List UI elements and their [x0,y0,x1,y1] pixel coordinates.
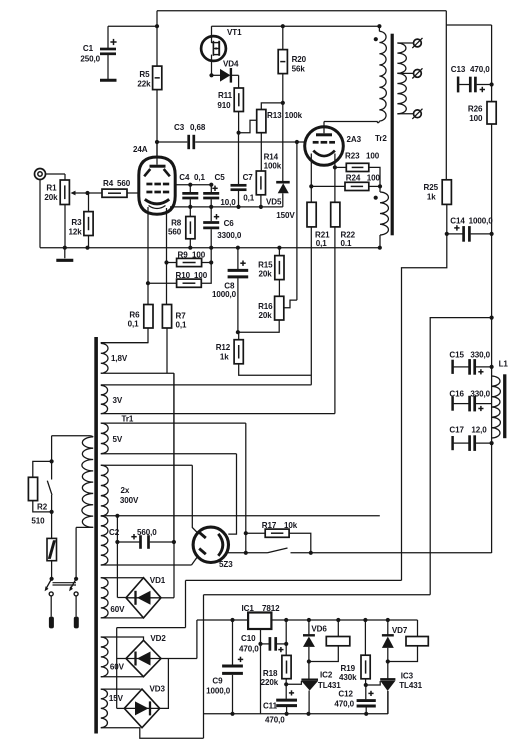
svg-text:0,1: 0,1 [243,194,255,203]
svg-text:C1: C1 [83,44,94,53]
svg-text:C3: C3 [174,123,185,132]
svg-text:100: 100 [366,152,380,161]
svg-text:VD7: VD7 [392,626,408,635]
svg-text:R24: R24 [346,173,361,182]
svg-text:VD3: VD3 [150,685,166,694]
svg-text:R23: R23 [345,152,360,161]
svg-text:R1: R1 [46,184,57,193]
svg-text:7812: 7812 [262,604,280,613]
svg-text:R26: R26 [468,105,483,114]
svg-text:330,0: 330,0 [470,390,490,399]
svg-text:100: 100 [194,271,208,280]
svg-text:12k: 12k [69,227,83,236]
svg-text:470,0: 470,0 [265,716,285,725]
svg-text:1000,0: 1000,0 [212,290,237,299]
svg-text:C17: C17 [449,426,464,435]
svg-text:10,0: 10,0 [220,198,236,207]
svg-text:0,68: 0,68 [190,123,206,132]
svg-text:0,1: 0,1 [128,320,140,329]
svg-text:910: 910 [217,101,231,110]
svg-text:VD4: VD4 [223,60,239,69]
svg-text:C7: C7 [243,173,254,182]
svg-text:R9: R9 [178,251,189,260]
svg-text:C2: C2 [109,528,120,537]
svg-text:R15: R15 [258,260,273,269]
svg-text:R17: R17 [262,521,277,530]
svg-text:470,0: 470,0 [334,700,354,709]
svg-text:C5: C5 [215,173,226,182]
svg-text:R19: R19 [341,664,356,673]
svg-text:VD5: VD5 [266,198,282,207]
svg-text:R7: R7 [176,312,187,321]
svg-text:R14: R14 [264,153,279,162]
svg-text:1k: 1k [427,193,436,202]
svg-text:100k: 100k [285,111,303,120]
svg-text:C14: C14 [450,217,465,226]
svg-text:R8: R8 [171,219,182,228]
svg-text:R18: R18 [263,669,278,678]
svg-text:C16: C16 [449,390,464,399]
svg-text:IC2: IC2 [320,671,333,680]
svg-text:1000,0: 1000,0 [206,687,231,696]
svg-text:300V: 300V [120,496,139,505]
svg-text:C13: C13 [451,65,466,74]
svg-text:10k: 10k [284,521,298,530]
svg-text:C4: C4 [179,173,190,182]
svg-text:C6: C6 [224,219,235,228]
svg-text:24A: 24A [133,145,148,154]
svg-text:R12: R12 [216,343,231,352]
svg-text:VD1: VD1 [150,576,166,585]
svg-text:IC3: IC3 [401,672,414,681]
svg-text:R21: R21 [315,230,330,239]
svg-text:510: 510 [31,517,45,526]
svg-text:0,1: 0,1 [194,173,206,182]
svg-text:R5: R5 [139,70,150,79]
svg-text:IC1: IC1 [242,604,255,613]
svg-text:C9: C9 [212,677,223,686]
svg-text:470,0: 470,0 [470,65,490,74]
svg-text:22k: 22k [137,80,151,89]
svg-text:5V: 5V [113,435,123,444]
svg-text:C11: C11 [263,702,278,711]
svg-text:2x: 2x [121,486,130,495]
svg-text:0,1: 0,1 [316,239,328,248]
svg-text:560: 560 [168,228,182,237]
svg-text:Tr2: Tr2 [375,134,387,143]
svg-text:100: 100 [469,114,483,123]
svg-text:R2: R2 [37,503,48,512]
svg-text:C15: C15 [449,351,464,360]
svg-text:R11: R11 [218,91,233,100]
svg-text:R6: R6 [129,310,140,319]
svg-text:100k: 100k [264,162,282,171]
svg-text:VD6: VD6 [311,625,327,634]
svg-text:C8: C8 [224,281,235,290]
svg-text:2A3: 2A3 [347,135,362,144]
svg-text:R4: R4 [103,179,114,188]
svg-text:100: 100 [367,173,381,182]
svg-text:R25: R25 [424,183,439,192]
svg-text:220k: 220k [261,678,279,687]
svg-text:R3: R3 [71,218,82,227]
svg-text:R10: R10 [176,271,191,280]
svg-text:60V: 60V [110,605,125,614]
svg-text:150V: 150V [276,211,295,220]
svg-text:TL431: TL431 [399,681,422,690]
svg-text:R20: R20 [292,55,307,64]
svg-text:VT1: VT1 [227,28,242,37]
svg-text:0.1: 0.1 [341,239,353,248]
svg-text:330,0: 330,0 [470,351,490,360]
svg-text:C12: C12 [338,690,353,699]
svg-text:430k: 430k [339,673,357,682]
svg-text:20k: 20k [259,269,273,278]
svg-text:12,0: 12,0 [471,426,487,435]
svg-text:VD2: VD2 [150,634,166,643]
svg-text:R16: R16 [258,302,273,311]
svg-text:100: 100 [192,251,206,260]
svg-text:250,0: 250,0 [80,55,100,64]
svg-text:C10: C10 [241,634,256,643]
svg-text:1000,0: 1000,0 [469,217,494,226]
svg-text:1,8V: 1,8V [111,354,128,363]
svg-text:56k: 56k [292,65,306,74]
svg-text:3300,0: 3300,0 [217,231,242,240]
svg-text:R13: R13 [267,111,282,120]
svg-text:20k: 20k [44,193,58,202]
svg-text:0,1: 0,1 [176,321,188,330]
svg-text:1k: 1k [220,353,229,362]
svg-text:5Z3: 5Z3 [219,560,233,569]
svg-text:470,0: 470,0 [239,645,259,654]
svg-text:Tr1: Tr1 [122,415,134,424]
svg-text:20k: 20k [259,311,273,320]
svg-text:L1: L1 [499,360,509,369]
svg-text:3V: 3V [113,396,123,405]
svg-text:560: 560 [117,179,131,188]
svg-text:R22: R22 [341,230,356,239]
svg-text:560,0: 560,0 [137,528,157,537]
